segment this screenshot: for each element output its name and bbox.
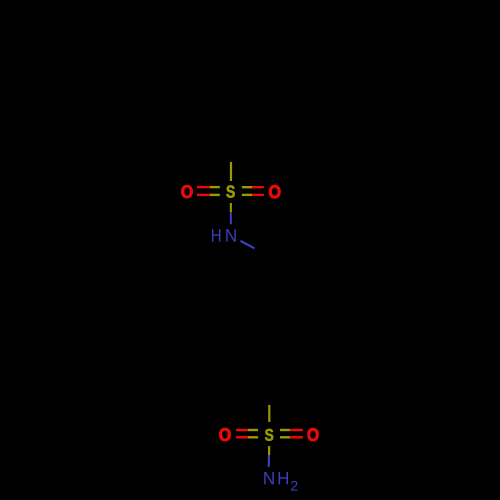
atom label O (right of S2) (308, 428, 319, 441)
atom label H of HN (212, 229, 220, 242)
bond S1-N1, sulfur half (230, 203, 232, 212)
atom label N2 of NH2 (264, 472, 274, 484)
atom label S1 (226, 185, 234, 197)
bond S2-N2, nitrogen half (268, 455, 270, 467)
bond N1-CH2, nitrogen half (241, 241, 255, 249)
atom label subscript 2 of NH2 (291, 481, 298, 491)
bond S2=O (right) double bond, S half (280, 429, 290, 431)
bond S2=O (left) double bond, S half (248, 429, 258, 431)
bond C(ring)-S2, sulfur half (268, 405, 270, 422)
atom label O (left of S2) (219, 428, 230, 441)
atom label O (right of S1) (269, 185, 280, 198)
bond S2=O (right) double bond, O half (290, 429, 303, 431)
bond S2=O (left) double bond, O half (236, 429, 248, 431)
bond S1=O (right) double bond, S half (242, 186, 252, 188)
bond S1=O (left) double bond, O half (197, 186, 210, 188)
bond S1=O (right) double bond, O half (252, 186, 264, 188)
atom label H of NH2 (279, 472, 289, 484)
bond S1=O (left) double bond, S half (210, 186, 220, 188)
atom label O (left of S1) (181, 185, 192, 198)
atom label N1 of HN (226, 229, 236, 242)
atom label S2 (265, 429, 273, 441)
bond C(methyl)-S1, sulfur half (230, 162, 232, 181)
bond S1-N1, nitrogen half (230, 212, 232, 224)
bond S2-N2, sulfur half (268, 446, 270, 455)
